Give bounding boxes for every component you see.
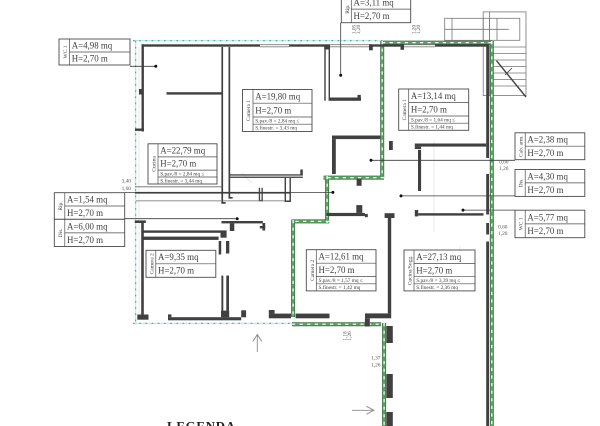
door jamb below green wall (dis-right) (357, 179, 362, 186)
svg-text:A=2,38 mq: A=2,38 mq (527, 135, 568, 145)
top exterior wall segments (142, 44, 261, 46)
right lower wall piers along green (386, 326, 393, 343)
svg-text:A=22,79 mq: A=22,79 mq (160, 146, 206, 156)
camera2-left left wall (141, 222, 144, 315)
svg-text:A=27,13 mq: A=27,13 mq (416, 252, 462, 262)
green dashed boundary (right unit perimeter) (292, 41, 493, 426)
bottom exterior wall pieces (137, 315, 148, 320)
svg-text:H=2,70 m: H=2,70 m (411, 105, 447, 115)
svg-text:H=2,70 m: H=2,70 m (255, 105, 291, 115)
svg-text:A=9,35 mq: A=9,35 mq (158, 252, 199, 262)
svg-text:1,26: 1,26 (371, 363, 381, 369)
room label box Camera 2 left (146, 250, 216, 277)
cab.arm room walls (332, 136, 380, 140)
svg-text:Dis.: Dis. (58, 228, 64, 238)
svg-text:1,20: 1,20 (416, 24, 422, 34)
wc1-right bottom wall (415, 210, 418, 216)
cucina bottom wall (135, 192, 291, 194)
svg-text:S.pav./8 = 1,64 mq ≤: S.pav./8 = 1,64 mq ≤ (411, 117, 455, 123)
svg-text:A=3,11 mq: A=3,11 mq (354, 0, 395, 8)
corridor lower walls (222, 221, 263, 223)
svg-text:1,20: 1,20 (498, 231, 508, 237)
room label box Camera 2 right (306, 250, 376, 291)
svg-text:H=2,70 m: H=2,70 m (354, 11, 390, 21)
svg-text:S.finestr. = 1,42 mq: S.finestr. = 1,42 mq (319, 284, 361, 291)
svg-text:Cucina: Cucina (152, 156, 158, 172)
window sill thin lines, top wall (260, 45, 435, 47)
room label box Cucina/Sogg (404, 250, 475, 291)
svg-text:S.finestr. = 1,44 mq: S.finestr. = 1,44 mq (411, 124, 453, 131)
svg-text:H=2,70 m: H=2,70 m (527, 226, 563, 236)
camera2-left top wall double band (143, 230, 221, 232)
svg-text:Camera 1: Camera 1 (246, 100, 252, 121)
entry arrow (right) (352, 406, 374, 414)
svg-text:H=2,70 m: H=2,70 m (527, 148, 563, 158)
staircase upper flight (445, 18, 520, 40)
svg-text:Camera 2: Camera 2 (149, 253, 155, 274)
dimension texts (122, 24, 509, 368)
svg-text:A=12,61 mq: A=12,61 mq (319, 252, 365, 262)
camera1-left right wall / rip-top room left wall (324, 44, 330, 49)
room label box Cucina (148, 144, 217, 185)
svg-text:A=19,80 mq: A=19,80 mq (255, 92, 301, 102)
svg-text:S.finestr. = 2,36 mq: S.finestr. = 2,36 mq (416, 284, 458, 291)
svg-text:S.finestr. = 3,43 mq: S.finestr. = 3,43 mq (255, 125, 297, 132)
svg-text:H=2,70 m: H=2,70 m (67, 208, 103, 218)
svg-text:A=6,00 mq: A=6,00 mq (67, 221, 108, 231)
svg-text:S.pav./8 = 2,84 mq ≤: S.pav./8 = 2,84 mq ≤ (255, 118, 299, 124)
svg-text:Rip.: Rip. (345, 4, 351, 14)
svg-text:WC 1: WC 1 (519, 217, 525, 230)
svg-text:H=2,70 m: H=2,70 m (158, 266, 194, 276)
faint construction grid lines (139, 40, 468, 318)
room label box Rip top (341, 0, 410, 23)
svg-text:1,20: 1,20 (356, 24, 362, 34)
svg-text:0,60: 0,60 (498, 225, 508, 231)
stub below camera1-left wall (285, 178, 286, 202)
room label box Rip left (54, 193, 124, 220)
wc1-left bottom wall (167, 92, 222, 94)
svg-text:H=2,70 m: H=2,70 m (416, 265, 452, 275)
camera1-left bottom wall double lines (229, 174, 303, 175)
thin interior lines (135, 187, 285, 201)
svg-text:S.pav./8 = 1,57 mq ≤: S.pav./8 = 1,57 mq ≤ (319, 278, 363, 284)
svg-text:Camera 2: Camera 2 (310, 259, 316, 280)
svg-text:S.pav./8 = 3,39 mq ≤: S.pav./8 = 3,39 mq ≤ (416, 278, 460, 284)
svg-text:A=13,14 mq: A=13,14 mq (411, 91, 457, 101)
svg-text:S.finestr. = 3,44 mq: S.finestr. = 3,44 mq (160, 177, 202, 184)
right exterior wall segments (486, 44, 489, 158)
svg-text:1,20: 1,20 (499, 166, 509, 172)
room label box Dis right (515, 170, 585, 197)
svg-text:1,37: 1,37 (371, 356, 381, 362)
rip-top room bottom wall (330, 98, 361, 101)
svg-text:3,40: 3,40 (122, 179, 132, 185)
svg-text:H=2,70 m: H=2,70 m (527, 185, 563, 195)
svg-text:H=2,70 m: H=2,70 m (319, 265, 355, 275)
room label box Camera 1 left (243, 90, 313, 132)
camera2-right right wall (388, 218, 391, 313)
room label box Dis left (54, 219, 124, 246)
svg-text:WC 1: WC 1 (63, 45, 69, 58)
svg-text:Cucina/Sogg.: Cucina/Sogg. (408, 255, 414, 285)
top-left exterior wall vertical (142, 44, 144, 131)
room label box Camera 1 right (399, 89, 469, 131)
svg-text:A=5,77 mq: A=5,77 mq (527, 212, 568, 222)
svg-text:S.pav./8 = 2,84 mq ≤: S.pav./8 = 2,84 mq ≤ (160, 171, 204, 177)
svg-text:A=4,30 mq: A=4,30 mq (527, 171, 568, 181)
leader lines and dots (125, 23, 515, 219)
walls (dark) (135, 44, 489, 426)
staircase diagonal cut line (497, 61, 527, 97)
north arrow (up) (253, 335, 262, 353)
svg-text:Camera 1: Camera 1 (402, 99, 408, 120)
room label box WC 1 right (515, 210, 585, 238)
svg-text:LEGENDA: LEGENDA (167, 420, 236, 426)
dis-right top wall (415, 144, 486, 147)
svg-text:Dis.: Dis. (519, 178, 525, 188)
svg-text:H=2,70 m: H=2,70 m (160, 159, 196, 169)
camera2-left right wall pieces (226, 241, 229, 254)
cyan dashed boundary (left unit perimeter) (133, 41, 382, 325)
svg-text:H=2,70 m: H=2,70 m (67, 235, 103, 245)
svg-text:0,60: 0,60 (499, 160, 509, 166)
svg-text:Cab. arm.: Cab. arm. (519, 135, 525, 157)
wall between wc/cucina and camera1-left (double line) (221, 47, 223, 204)
svg-text:Rip.: Rip. (58, 201, 64, 211)
svg-text:H=2,70 m: H=2,70 m (72, 54, 108, 64)
svg-text:A=1,54 mq: A=1,54 mq (67, 195, 108, 205)
svg-text:1,26: 1,26 (347, 331, 353, 341)
staircase shaft with steps (483, 12, 526, 96)
room label box WC 1 left (59, 39, 130, 65)
door jamb right of green (camera1-right) (389, 141, 393, 150)
svg-text:1,60: 1,60 (122, 186, 132, 192)
svg-text:A=4,98 mq: A=4,98 mq (72, 41, 113, 51)
room label box Cab arm right (515, 133, 585, 160)
